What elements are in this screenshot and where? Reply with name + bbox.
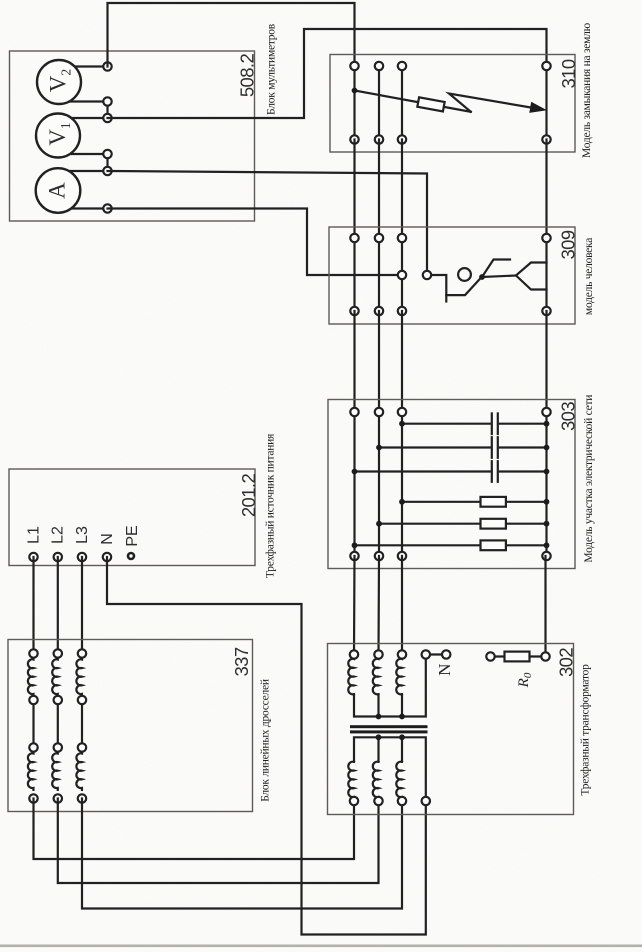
junction dot	[376, 714, 382, 720]
capacitor C1 plates	[491, 413, 493, 434]
wire L2 bottom run	[58, 799, 379, 884]
terminal R0 right	[541, 652, 549, 660]
resistor row 6 wires	[355, 544, 547, 546]
junction dot	[376, 734, 382, 740]
resistor R row5	[481, 519, 506, 529]
block 201.2 frame	[9, 469, 255, 566]
terminal 303 bottom L3	[398, 552, 406, 560]
wire column L2 through 309	[378, 238, 380, 311]
terminal 337 mid2 L3	[78, 743, 86, 751]
resistor R0	[505, 652, 530, 662]
wire column L3 through 309	[401, 238, 403, 311]
wire right rail through 303	[545, 412, 547, 556]
terminal L1	[29, 553, 37, 561]
terminal 337 bottom L2	[54, 794, 62, 802]
secondary winding W2	[373, 655, 379, 695]
junction dots 303 rail	[544, 421, 550, 427]
terminal 302 bottom W3	[398, 797, 406, 805]
terminal 310 top L2	[375, 62, 383, 70]
wire	[401, 737, 403, 762]
terminal 302 bottom W1	[350, 797, 358, 805]
human leg lower	[516, 276, 547, 290]
capacitor row 2 wires	[379, 446, 490, 448]
block 302 frame	[328, 644, 574, 815]
wire A to terminal t5	[58, 170, 108, 172]
fault arrow line	[355, 91, 471, 112]
wire column L1 through 309	[353, 238, 355, 311]
terminal 309 bottom L2	[375, 307, 383, 315]
svg-text:N: N	[435, 664, 454, 676]
terminal human input	[423, 271, 431, 279]
inductor L2b	[52, 752, 58, 790]
wire	[377, 737, 379, 762]
terminal 302 top W3	[398, 650, 406, 658]
fault arrowhead	[529, 102, 547, 113]
wire	[377, 694, 379, 716]
svg-text:337: 337	[231, 647, 252, 676]
wire N terminal link	[426, 653, 446, 655]
svg-text:PE: PE	[124, 525, 141, 546]
terminal 337 bottom L3	[78, 794, 86, 802]
capacitor C2 plates	[491, 437, 493, 458]
wire columns 303 to 302	[353, 556, 356, 655]
terminal 337 mid1 L1	[29, 696, 37, 704]
terminal 309 top L2	[375, 234, 383, 242]
terminal L3	[78, 553, 86, 561]
wire right rail through 310	[545, 66, 547, 140]
core bar 1	[350, 725, 428, 728]
wire L3 mid	[81, 700, 83, 748]
terminal 310 top right	[542, 62, 550, 70]
junction dot	[399, 734, 405, 740]
terminal 337 top L2	[54, 649, 62, 657]
wire columns 309 to 303	[353, 311, 355, 412]
terminal PE	[128, 553, 134, 559]
wire L1 bottom run	[34, 799, 355, 860]
ammeter A	[36, 168, 81, 213]
wire	[401, 311, 403, 412]
wire W4 t6 to tap terminal	[108, 209, 399, 276]
wire V2 to terminal t1	[59, 65, 108, 67]
resistor R row4	[481, 497, 506, 507]
wire N run	[107, 557, 426, 935]
terminal 309 top L3	[398, 234, 406, 242]
terminal 337 mid2 L1	[29, 743, 37, 751]
primary winding W2	[373, 762, 379, 802]
svg-text:Модель замыкания на землю: Модель замыкания на землю	[581, 22, 593, 158]
terminal 303 top right	[542, 408, 550, 416]
terminal 310 bottom L2	[375, 135, 383, 143]
inductor L3b	[76, 752, 82, 790]
wire	[378, 140, 380, 239]
wire	[401, 140, 403, 239]
terminal t2	[103, 97, 111, 105]
terminal 309 bottom L1	[350, 307, 358, 315]
terminal t1	[103, 62, 111, 70]
block 508.2 frame	[10, 51, 255, 221]
block 309 frame	[329, 227, 575, 324]
terminal t6	[103, 204, 111, 212]
wire L1 source to 337	[32, 557, 34, 654]
terminal t3	[103, 114, 111, 122]
capacitor row 3 wires	[355, 470, 490, 472]
svg-text:N: N	[99, 533, 116, 545]
svg-text:модель человека: модель человека	[583, 238, 595, 315]
fault zigzag	[449, 94, 532, 112]
terminal 310 bottom L3	[398, 135, 406, 143]
wire column L1 through 303	[353, 412, 355, 556]
svg-text:303: 303	[558, 402, 579, 431]
terminal 309 top right	[542, 234, 550, 242]
svg-text:Модель участка электрической с: Модель участка электрической сети	[583, 395, 595, 563]
svg-text:L2: L2	[50, 526, 67, 544]
inductor L1b	[28, 752, 34, 790]
wire column L2 through 310	[378, 66, 380, 140]
wire	[378, 311, 380, 412]
primary winding W3	[396, 762, 402, 802]
terminal 303 top L2	[375, 408, 383, 416]
terminal 309 bottom L3	[398, 307, 406, 315]
terminal 309 bottom right	[542, 307, 550, 315]
resistor R row6	[481, 540, 506, 550]
wire column L3 through 310	[401, 66, 403, 140]
svg-text:L3: L3	[74, 526, 91, 544]
human head	[458, 268, 471, 281]
resistor row 4 wires	[402, 501, 547, 503]
block 310 frame	[330, 55, 575, 153]
voltmeter V1	[36, 114, 80, 158]
voltmeter V2	[37, 60, 81, 104]
wire right rail through 309	[545, 238, 547, 311]
wire W2 t3 to 310 right rail	[108, 29, 547, 118]
wire W3 t5 to human terminal	[108, 171, 428, 271]
primary star bus	[354, 737, 426, 801]
terminal 310 bottom L1	[350, 135, 358, 143]
wire	[377, 556, 380, 655]
svg-text:302: 302	[556, 648, 577, 677]
human foot tail	[445, 295, 447, 301]
wire link t2-t3	[106, 102, 108, 119]
resistor in fault branch	[417, 97, 444, 111]
terminal 337 mid1 L3	[78, 696, 86, 704]
terminal 302 bottom W2	[374, 797, 382, 805]
svg-text:A: A	[45, 182, 70, 199]
terminal R0 left	[486, 652, 494, 660]
secondary star bus	[354, 655, 426, 717]
terminal 303 top L1	[350, 408, 358, 416]
junction dot neck	[479, 274, 485, 280]
junction dot	[399, 714, 405, 720]
terminal 302 bottom N	[422, 797, 430, 805]
scan bottom edge	[0, 945, 642, 948]
terminal 309 top L1	[350, 234, 358, 242]
capacitor row 1 wires	[402, 423, 490, 425]
wire column L1 through 310	[353, 66, 355, 140]
terminal tap on L3	[398, 271, 406, 279]
terminal 303 bottom right	[542, 552, 550, 560]
terminal 302 top W2	[374, 650, 382, 658]
wire A to terminal t6	[58, 207, 108, 209]
terminal N	[103, 553, 111, 561]
terminal 302 N out	[442, 650, 450, 658]
junction dot on L1	[352, 88, 358, 94]
wire L3 source to 337	[81, 557, 83, 654]
svg-text:Трехфазный трансформатор: Трехфазный трансформатор	[580, 664, 592, 796]
terminal 337 mid1 L2	[54, 696, 62, 704]
terminal 303 bottom L1	[350, 552, 358, 560]
svg-text:309: 309	[558, 230, 579, 259]
inductor L1a	[28, 658, 34, 696]
resistor R0 wires	[491, 655, 505, 657]
svg-text:310: 310	[558, 59, 579, 88]
wire L2 source to 337	[57, 557, 59, 654]
wire V1 to terminal t4	[58, 153, 108, 155]
wire rail 310 to 309	[545, 140, 547, 239]
terminal t5	[103, 167, 111, 175]
terminal 310 top L3	[398, 62, 406, 70]
terminal 303 top L3	[398, 408, 406, 416]
wire link t4-t5	[106, 154, 108, 171]
svg-text:508.2: 508.2	[237, 54, 258, 98]
secondary winding W1	[348, 655, 354, 695]
wire rail 303 to R0	[544, 556, 546, 653]
core bar 2	[350, 730, 428, 733]
wire V2 to terminal t2	[59, 100, 108, 102]
terminal 303 bottom L2	[375, 552, 383, 560]
human arm	[482, 260, 510, 278]
primary winding W1	[348, 762, 354, 802]
block 303 frame	[328, 400, 575, 569]
terminal t4	[103, 150, 111, 158]
wire L2 mid	[57, 700, 59, 748]
block 337 frame	[8, 640, 253, 812]
wire rail 309 to 303	[545, 311, 547, 412]
terminal 310 bottom right	[542, 135, 550, 143]
wire	[401, 694, 403, 716]
human leg upper	[516, 263, 547, 276]
terminal 337 mid2 L2	[54, 743, 62, 751]
svg-text:Блок мультиметров: Блок мультиметров	[266, 23, 278, 115]
inductor L3a	[76, 658, 82, 696]
wire V1 to terminal t3	[58, 117, 108, 119]
terminal 337 top L3	[78, 649, 86, 657]
human body	[482, 276, 516, 278]
terminal L2	[54, 553, 62, 561]
terminal 302 N star	[422, 650, 430, 658]
wire W1 t1 to 310 col1	[108, 3, 355, 67]
wire columns 310 to 309	[353, 140, 355, 239]
wire L1 mid	[32, 700, 34, 748]
svg-text:201.2: 201.2	[238, 474, 259, 518]
svg-text:Блок линейных дросселей: Блок линейных дросселей	[260, 679, 272, 802]
wire L3 bottom run	[82, 799, 402, 909]
terminal 310 top L1	[350, 62, 358, 70]
human hand lead	[431, 275, 482, 295]
wire	[401, 556, 403, 655]
inductor L2a	[52, 658, 58, 696]
secondary winding W3	[396, 655, 402, 695]
terminal 337 bottom L1	[29, 794, 37, 802]
svg-text:L1: L1	[26, 526, 43, 544]
wire column L3 through 303	[401, 412, 403, 556]
terminal 337 top L1	[29, 649, 37, 657]
svg-text:Трехфазный источник питания: Трехфазный источник питания	[265, 433, 277, 578]
resistor row 5 wires	[379, 523, 547, 525]
terminal 302 top W1	[350, 650, 358, 658]
wire column L2 through 303	[378, 412, 380, 556]
junction dots 303 left taps	[399, 421, 405, 427]
capacitor C3 plates	[491, 461, 493, 482]
